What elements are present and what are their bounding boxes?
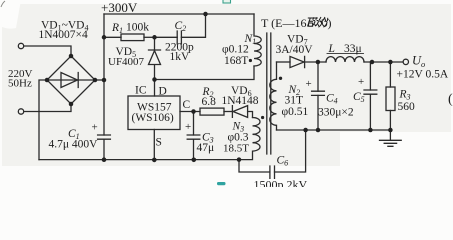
- svg-text:168T: 168T: [224, 55, 248, 67]
- transformer core: [267, 33, 271, 154]
- svg-text:33μ: 33μ: [344, 43, 362, 55]
- AC input terminal bottom: [18, 109, 23, 114]
- svg-text:47μ: 47μ: [197, 142, 215, 154]
- svg-text:4.7μ 400V: 4.7μ 400V: [49, 139, 99, 151]
- wire bridge plus to feed line: [95, 79, 104, 81]
- wire drain node to primary bottom: [155, 66, 255, 80]
- svg-text:φ0.12: φ0.12: [222, 44, 249, 56]
- background tint of schematic scan: [2, 4, 451, 132]
- watermark teal square top: [223, 0, 231, 3]
- svg-text:1N4148: 1N4148: [222, 95, 259, 107]
- svg-text:330μ×2: 330μ×2: [318, 107, 354, 119]
- svg-text:1kV: 1kV: [170, 51, 191, 63]
- wire +300V feed vertical from bridge to rail: [103, 14, 105, 135]
- feedback winding N3 coil: [239, 118, 260, 160]
- svg-text:S: S: [156, 137, 162, 149]
- wire C pin: [180, 111, 200, 113]
- svg-text:D: D: [159, 86, 167, 98]
- svg-text:L: L: [328, 43, 335, 55]
- svg-text:): ): [328, 16, 332, 30]
- wire bridge diagonal: [47, 79, 95, 81]
- wire R1 right lead: [144, 36, 155, 38]
- ground symbol: [380, 130, 402, 146]
- capacitor C4 leads: [317, 62, 319, 130]
- wire S pin: [153, 130, 155, 160]
- wire AC top input: [24, 46, 71, 56]
- hanzi xin (heart) simplified strokes: [320, 18, 328, 26]
- svg-text:(WS106): (WS106): [132, 112, 174, 124]
- wire R3 bottom lead: [389, 111, 391, 131]
- svg-text:+: +: [358, 76, 364, 88]
- svg-text:T (E—16: T (E—16: [261, 16, 306, 30]
- svg-text:100k: 100k: [126, 22, 149, 34]
- wire R1 left lead: [104, 36, 121, 38]
- svg-text:560: 560: [398, 101, 416, 113]
- capacitor C4 plates: [312, 91, 325, 95]
- output terminal circle: [403, 59, 408, 64]
- svg-text:UF4007: UF4007: [108, 56, 145, 68]
- svg-text:+300V: +300V: [101, 0, 138, 15]
- wire bridge minus branch: [39, 80, 47, 160]
- wire VD6 to N3: [248, 112, 253, 118]
- svg-text:+: +: [92, 122, 98, 134]
- wire R2 right lead: [224, 111, 232, 113]
- wire L to output: [364, 61, 403, 63]
- svg-text:+: +: [306, 78, 312, 90]
- watermark teal dash bottom: [217, 182, 226, 185]
- svg-text:IC: IC: [135, 85, 147, 97]
- capacitor C6 plates: [270, 166, 275, 178]
- capacitor C1 plates: [98, 135, 111, 139]
- polarity dot N2: [279, 77, 282, 80]
- wire AC bottom input: [24, 104, 71, 112]
- svg-text:31T: 31T: [285, 95, 304, 107]
- capacitor C2 plates: [177, 31, 181, 44]
- capacitor C1 leads: [103, 139, 105, 159]
- secondary winding N2 coil: [270, 62, 277, 130]
- svg-text:18.5T: 18.5T: [223, 143, 249, 155]
- wire VD7 cathode to L: [305, 61, 326, 63]
- svg-text:50Hz: 50Hz: [8, 78, 32, 90]
- svg-text:+12V 0.5A: +12V 0.5A: [397, 69, 449, 81]
- IC WS157 box: [128, 96, 180, 130]
- svg-text:(: (: [448, 92, 453, 107]
- label underline for L 33u: [327, 53, 364, 55]
- corner artifact mark: [1, 1, 5, 7]
- polarity dot N3: [261, 116, 264, 119]
- svg-text:3A/40V: 3A/40V: [276, 44, 314, 56]
- svg-text:1N4007×4: 1N4007×4: [39, 29, 89, 41]
- capacitor C3 leads: [193, 112, 195, 160]
- wire secondary ground rail: [277, 129, 391, 131]
- wire +300V top rail: [104, 13, 254, 15]
- resistor R2 body: [200, 108, 224, 115]
- polarity dot N1: [249, 59, 252, 62]
- AC input terminal top: [18, 43, 23, 48]
- capacitor C2 wires: [155, 14, 206, 37]
- diode VD5 (cathode bar up, triangle points up): [149, 37, 161, 96]
- svg-text:1500p 2kV: 1500p 2kV: [254, 178, 308, 188]
- svg-text:+: +: [185, 121, 191, 133]
- inductor L coil: [326, 57, 364, 62]
- capacitor C5 plates: [364, 90, 377, 94]
- diode VD6 (points left): [232, 106, 247, 118]
- svg-text:C: C: [183, 99, 191, 111]
- capacitor C5 leads: [369, 62, 371, 130]
- hanzi ci (magnet) simplified strokes: [308, 17, 328, 27]
- bridge rectifier VD1-VD4 diamond: [47, 56, 95, 104]
- svg-text:6.8: 6.8: [202, 96, 217, 108]
- capacitor C3 plates: [187, 135, 200, 139]
- wire R3 top lead: [389, 62, 391, 87]
- resistor R3 body: [386, 87, 395, 111]
- wire bottom ground rail primary: [39, 159, 239, 161]
- diode VD7 (points right): [290, 56, 305, 67]
- primary winding N1 coil: [254, 14, 261, 66]
- resistor R1 body: [121, 34, 144, 41]
- wire N2 top to VD7: [277, 61, 291, 63]
- diode symbol inside bridge: [61, 73, 78, 88]
- wire C6 branch: [239, 130, 306, 172]
- svg-text:φ0.51: φ0.51: [282, 106, 309, 118]
